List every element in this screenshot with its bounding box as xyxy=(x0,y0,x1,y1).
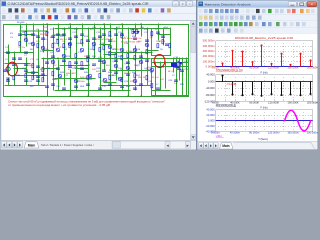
capacitor C21 xyxy=(57,34,60,35)
capacitor C30 xyxy=(52,56,55,57)
capacitor C53 xyxy=(52,84,55,85)
resistor R29 xyxy=(146,50,148,54)
capacitor C18 xyxy=(4,70,7,71)
svg-text:-74.49dB: -74.49dB xyxy=(226,83,236,86)
capacitor C15 xyxy=(175,66,178,67)
transistor Q22 xyxy=(41,46,45,50)
capacitor C67 xyxy=(109,84,112,85)
capacitor C44 xyxy=(93,64,96,65)
capacitor C45 xyxy=(103,70,106,71)
svg-text:Main: Main xyxy=(222,144,229,148)
capacitor C60 xyxy=(37,76,40,77)
svg-text:80.000K: 80.000K xyxy=(249,101,259,105)
transistor Q24 xyxy=(62,54,66,58)
svg-text:BD912: BD912 xyxy=(124,73,131,75)
capacitor C56 xyxy=(178,68,181,69)
resistor R44 xyxy=(13,76,15,80)
transistor Q10 xyxy=(102,60,106,64)
left window tab bar xyxy=(1,140,196,149)
resistor R31 xyxy=(162,40,164,44)
node/name labels (blue) xyxy=(5,22,189,88)
svg-text:200.000m: 200.000m xyxy=(203,54,216,58)
resistor R28 xyxy=(134,56,136,60)
capacitor C27 xyxy=(121,34,124,35)
capacitor C50 xyxy=(19,58,22,59)
svg-text:100.000m: 100.000m xyxy=(203,59,216,63)
capacitor C13 xyxy=(162,36,165,37)
svg-text:40.000: 40.000 xyxy=(206,108,215,112)
capacitor C19 xyxy=(32,34,35,35)
ground xyxy=(7,78,10,79)
capacitor C36 xyxy=(127,62,130,63)
capacitor C7 xyxy=(75,36,78,37)
capacitor C1 xyxy=(19,34,22,35)
capacitor C54 xyxy=(63,88,66,89)
svg-text:20.000: 20.000 xyxy=(206,113,215,117)
analysis caption buttons xyxy=(288,1,316,6)
resistor R36 xyxy=(52,72,54,76)
annotation text (red) xyxy=(8,100,165,108)
capacitor C52 xyxy=(46,86,49,87)
capacitor C68 xyxy=(121,86,124,87)
transistor Q3 xyxy=(68,42,72,46)
capacitor C48 xyxy=(175,80,178,81)
capacitor C43 xyxy=(81,68,84,69)
svg-text:160.000K: 160.000K xyxy=(288,66,299,70)
resistor R37 xyxy=(87,76,89,80)
resistor R39 xyxy=(109,76,111,80)
resistor R18 xyxy=(81,62,83,66)
analysis toolbar row 3 xyxy=(198,21,318,27)
analysis toolbar row 4 xyxy=(198,27,318,33)
resistor R38 xyxy=(99,74,101,78)
capacitor C35 xyxy=(115,60,118,61)
capacitor C22 xyxy=(69,38,72,39)
capacitor C28 xyxy=(134,38,137,39)
capacitor C59 xyxy=(32,72,35,73)
svg-text:2SA1943: 2SA1943 xyxy=(156,40,166,43)
transistor Q5 xyxy=(92,42,96,46)
capacitor C16 xyxy=(181,70,184,71)
sub-circuit box (VAS cell) xyxy=(152,29,171,56)
capacitor C55 xyxy=(172,64,175,65)
capacitor C37 xyxy=(140,56,143,57)
svg-text:120.000K: 120.000K xyxy=(268,66,279,70)
svg-text:80.000K: 80.000K xyxy=(249,66,259,70)
resistor R3 xyxy=(63,44,65,48)
svg-text:R52 10: R52 10 xyxy=(138,77,146,79)
resistor R42 xyxy=(146,76,148,80)
svg-text:C2 22u: C2 22u xyxy=(18,47,26,49)
svg-text:0R33: 0R33 xyxy=(28,65,34,67)
resistor R21 xyxy=(57,40,59,44)
svg-text:–: – xyxy=(175,2,177,6)
resistor R19 xyxy=(25,32,27,36)
analysis toolbar row 2 xyxy=(198,14,318,20)
svg-text:-40.000: -40.000 xyxy=(205,86,215,90)
svg-text:L1 2u2: L1 2u2 xyxy=(152,77,159,79)
capacitor C47 xyxy=(127,74,130,75)
left window caption buttons xyxy=(173,1,193,6)
resistor R43 xyxy=(151,84,153,88)
transistor Q7 xyxy=(120,48,124,52)
capacitor C6 xyxy=(63,34,66,35)
capacitor C12 xyxy=(157,32,160,33)
svg-text:400.000m: 400.000m xyxy=(203,44,216,48)
diode D4 xyxy=(179,62,182,65)
capacitor C14 xyxy=(166,44,169,45)
transistor Q14 xyxy=(150,68,154,72)
resistor R30 xyxy=(151,32,153,36)
capacitor C25 xyxy=(103,34,106,35)
capacitor C34 xyxy=(99,60,102,61)
capacitor C62 xyxy=(25,80,28,81)
svg-text:F (Hz): F (Hz) xyxy=(261,107,268,110)
svg-text:80.000m: 80.000m xyxy=(249,131,259,135)
resistor R33 xyxy=(25,74,27,78)
capacitor C57 xyxy=(7,80,10,81)
transistor Q4 xyxy=(80,48,84,52)
svg-text:40.000m: 40.000m xyxy=(230,131,240,135)
svg-text:120.000m: 120.000m xyxy=(268,131,280,135)
resistor R13 xyxy=(127,54,129,58)
plot panel xyxy=(198,34,318,142)
resistor R35 xyxy=(42,78,44,82)
svg-text:×: × xyxy=(182,2,184,6)
resistor R32 xyxy=(169,44,171,48)
plot 3: output transient xyxy=(205,108,318,142)
component value labels (red) xyxy=(18,29,178,85)
wire segments (vertical) xyxy=(9,24,187,96)
svg-text:100n: 100n xyxy=(80,81,86,83)
resistor R6 xyxy=(99,48,101,52)
left window vertical scrollbar xyxy=(191,21,196,141)
svg-text:40.000: 40.000 xyxy=(206,73,215,77)
left toolbar row 1 xyxy=(1,7,196,14)
transistor Q18 xyxy=(103,78,107,82)
resistor R5 xyxy=(87,58,89,62)
resistor R27 xyxy=(121,56,123,60)
svg-text:RD2019-98_Elektro_2x25 speak.C: RD2019-98_Elektro_2x25 speak.CIR xyxy=(235,36,293,40)
svg-text:R16 4k7: R16 4k7 xyxy=(96,39,105,41)
capacitor C64 xyxy=(75,86,78,87)
resistor R15 xyxy=(32,64,34,68)
transistor Q21 xyxy=(24,38,28,42)
annotation ellipse 1 xyxy=(7,62,17,76)
transistor Q6 xyxy=(108,45,112,49)
analysis tab bar xyxy=(198,142,318,150)
capacitor C32 xyxy=(75,62,78,63)
resistor R12 xyxy=(115,54,117,58)
svg-text:200.000m: 200.000m xyxy=(307,131,318,135)
left toolbar row 2 xyxy=(1,14,196,21)
resistor R10 xyxy=(136,30,138,34)
capacitor C42 xyxy=(69,66,72,67)
svg-text:F (Hz): F (Hz) xyxy=(261,72,268,75)
resistor R34 xyxy=(32,76,34,80)
transistor Q16 xyxy=(74,79,78,83)
resistor R20 xyxy=(37,44,39,48)
transistor Q13 xyxy=(139,60,143,64)
transistor Q2 xyxy=(56,48,60,52)
capacitor C38 xyxy=(25,64,28,65)
svg-text:IN+B08: IN+B08 xyxy=(17,22,25,24)
resistor R25 xyxy=(103,46,105,50)
resistor R23 xyxy=(81,40,83,44)
left window title bar xyxy=(1,1,196,7)
svg-text:0.000: 0.000 xyxy=(208,119,215,123)
analysis window title bar xyxy=(198,1,318,8)
analysis toolbar row 1 xyxy=(198,8,318,15)
capacitor C2 xyxy=(25,52,28,53)
capacitor C41 xyxy=(57,68,60,69)
svg-text:500.000m: 500.000m xyxy=(203,39,216,43)
svg-text:200.000K: 200.000K xyxy=(307,66,318,70)
diode D2 xyxy=(136,31,139,34)
svg-text:.68m: .68m xyxy=(44,49,49,51)
resistor R2 xyxy=(52,44,54,48)
resistor R24 xyxy=(93,46,95,50)
capacitor C63 xyxy=(37,80,40,81)
svg-text:120.000K: 120.000K xyxy=(268,101,279,105)
resistor R41 xyxy=(134,74,136,78)
resistor R40 xyxy=(121,78,123,82)
capacitor C5 xyxy=(7,52,10,53)
svg-text:Harmonic Distortion Analysis: Harmonic Distortion Analysis xyxy=(205,2,252,6)
svg-text:300.000m: 300.000m xyxy=(203,49,216,53)
resistor R26 xyxy=(109,52,111,56)
resistor R7 xyxy=(109,32,111,36)
svg-text:0.000: 0.000 xyxy=(208,79,215,83)
transistor Q1 xyxy=(31,42,35,46)
svg-text:200.000K: 200.000K xyxy=(307,101,318,105)
resistor R1 xyxy=(46,32,48,36)
transistor Q15 xyxy=(58,74,62,78)
resistor R9 xyxy=(132,30,134,34)
svg-text:T (Secs): T (Secs) xyxy=(258,138,268,141)
capacitor C49 xyxy=(157,88,160,89)
source V1 xyxy=(6,67,10,71)
svg-text:160.000K: 160.000K xyxy=(288,101,299,105)
capacitor C69 xyxy=(134,88,137,89)
capacitor C40 xyxy=(46,62,49,63)
wire junction dots xyxy=(46,23,141,96)
capacitor C23 xyxy=(81,34,84,35)
svg-text:от промышленного перехода може: от промышленного перехода может г-из гро… xyxy=(8,103,110,107)
capacitor C31 xyxy=(63,60,66,61)
resistor R16 xyxy=(42,68,44,72)
svg-text:R5 220: R5 220 xyxy=(40,34,48,36)
transistor Q17 xyxy=(88,74,92,78)
plot 1: harmonic magnitude xyxy=(203,36,319,75)
transistor Q12 xyxy=(126,66,130,70)
capacitor C66 xyxy=(99,88,102,89)
capacitor C39 xyxy=(37,66,40,67)
transistor Q20 xyxy=(133,79,137,83)
capacitor C33 xyxy=(87,56,90,57)
transistor Q23 xyxy=(51,60,55,64)
resistor R22 xyxy=(69,44,71,48)
svg-text:-80.000: -80.000 xyxy=(205,93,215,97)
capacitor C11 xyxy=(146,60,149,61)
capacitor C26 xyxy=(109,40,112,41)
diode D1 xyxy=(132,31,135,34)
capacitor C58 xyxy=(25,70,28,71)
output network box xyxy=(152,59,189,96)
svg-text:Tab 2 / Models 1 / Power Suppl: Tab 2 / Models 1 / Power Supplies / Link… xyxy=(41,143,94,147)
schematic canvas xyxy=(1,21,191,141)
svg-text:OUT: OUT xyxy=(184,61,189,63)
capacitor C70 xyxy=(140,84,143,85)
annotation ellipse 2 xyxy=(154,55,165,68)
resistor R14 xyxy=(19,42,21,46)
resistor R11 xyxy=(157,44,159,48)
transistor Q9 xyxy=(145,43,149,47)
resistor R17 xyxy=(69,62,71,66)
left schematic window frame xyxy=(0,0,197,150)
capacitor C29 xyxy=(146,40,149,41)
plot 2: harmonics in dB xyxy=(204,73,318,110)
capacitor C24 xyxy=(93,38,96,39)
capacitor C61 xyxy=(42,74,45,75)
svg-text:2SC: 2SC xyxy=(84,56,89,58)
svg-text:RL 4: RL 4 xyxy=(168,71,173,73)
transistor Q11 xyxy=(114,64,118,68)
capacitor C20 xyxy=(42,38,45,39)
transistor Q8 xyxy=(133,48,137,52)
wire segments (horizontal) xyxy=(5,25,188,91)
capacitor C51 xyxy=(13,64,16,65)
analysis window frame xyxy=(197,0,318,150)
svg-text:C:\MC12\DATA\Petrov\Studio\RD2: C:\MC12\DATA\Petrov\Studio\RD2019-98_Pet… xyxy=(8,2,149,6)
capacitor C8 xyxy=(87,40,90,41)
svg-text:220u: 220u xyxy=(130,81,136,83)
capacitor C17 xyxy=(52,36,55,37)
svg-text:160.000m: 160.000m xyxy=(287,131,299,135)
schematic sheet border xyxy=(4,25,189,97)
capacitor C46 xyxy=(115,72,118,73)
capacitor C3 xyxy=(37,36,40,37)
svg-text:Main: Main xyxy=(28,143,36,147)
speaker load RL xyxy=(171,61,181,68)
capacitor C65 xyxy=(87,84,90,85)
resistor R4 xyxy=(75,54,77,58)
capacitor C4 xyxy=(13,58,16,59)
capacitor C10 xyxy=(115,34,118,35)
svg-text:-20.000: -20.000 xyxy=(205,124,215,128)
resistor R8 xyxy=(121,34,123,38)
capacitor C9 xyxy=(99,36,102,37)
transistor Q19 xyxy=(118,77,122,81)
